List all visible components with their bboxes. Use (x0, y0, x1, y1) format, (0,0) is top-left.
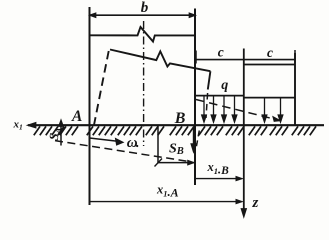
svg-text:B: B (174, 110, 186, 127)
dashed settled surface line under load (196, 100, 281, 122)
centerline dot (136, 145, 138, 147)
svg-text:b: b (141, 0, 149, 16)
svg-text:q: q (221, 78, 228, 93)
centerline (143, 21, 145, 146)
x1 axis arrowhead (27, 122, 36, 128)
tick left of c dim (195, 51, 197, 64)
settlement S_B dimension (155, 126, 195, 167)
tilted block right edge (208, 71, 211, 89)
tilted block top with break (110, 50, 210, 72)
z axis and load boundary (241, 49, 247, 218)
settlement S_A dimension (59, 120, 64, 146)
right edge of load (294, 53, 296, 125)
ground hatching (34, 126, 316, 135)
svg-text:c: c (267, 45, 273, 60)
load top line first segment (196, 95, 244, 97)
svg-text:z: z (252, 195, 259, 211)
load arrows first segment (202, 96, 237, 122)
tick right of c dim (294, 50, 296, 63)
tilted block right edge extension dashed (206, 93, 208, 118)
arrow at B settled point (191, 127, 196, 152)
dimension b line (90, 13, 195, 17)
dimension x1.A (90, 199, 244, 204)
dashed segment below ground near B (196, 131, 199, 148)
foundation right edge (194, 9, 196, 186)
svg-text:ω: ω (127, 135, 138, 151)
tilted block left edge dashed (94, 51, 109, 125)
foundation top edge with break (90, 27, 195, 42)
load block second segment outline (244, 64, 295, 66)
load arrows second segment (262, 98, 283, 122)
svg-text:A: A (71, 108, 82, 125)
dimension x1.B (195, 176, 243, 181)
svg-text:c: c (218, 45, 224, 60)
dashed tilted base line A'B' (55, 141, 191, 162)
ground line / x1 axis (28, 124, 324, 126)
tilt angle omega arrow (90, 138, 124, 145)
foundation left edge (89, 7, 91, 205)
dimension line c c (196, 59, 295, 61)
load top line second segment (244, 97, 295, 99)
